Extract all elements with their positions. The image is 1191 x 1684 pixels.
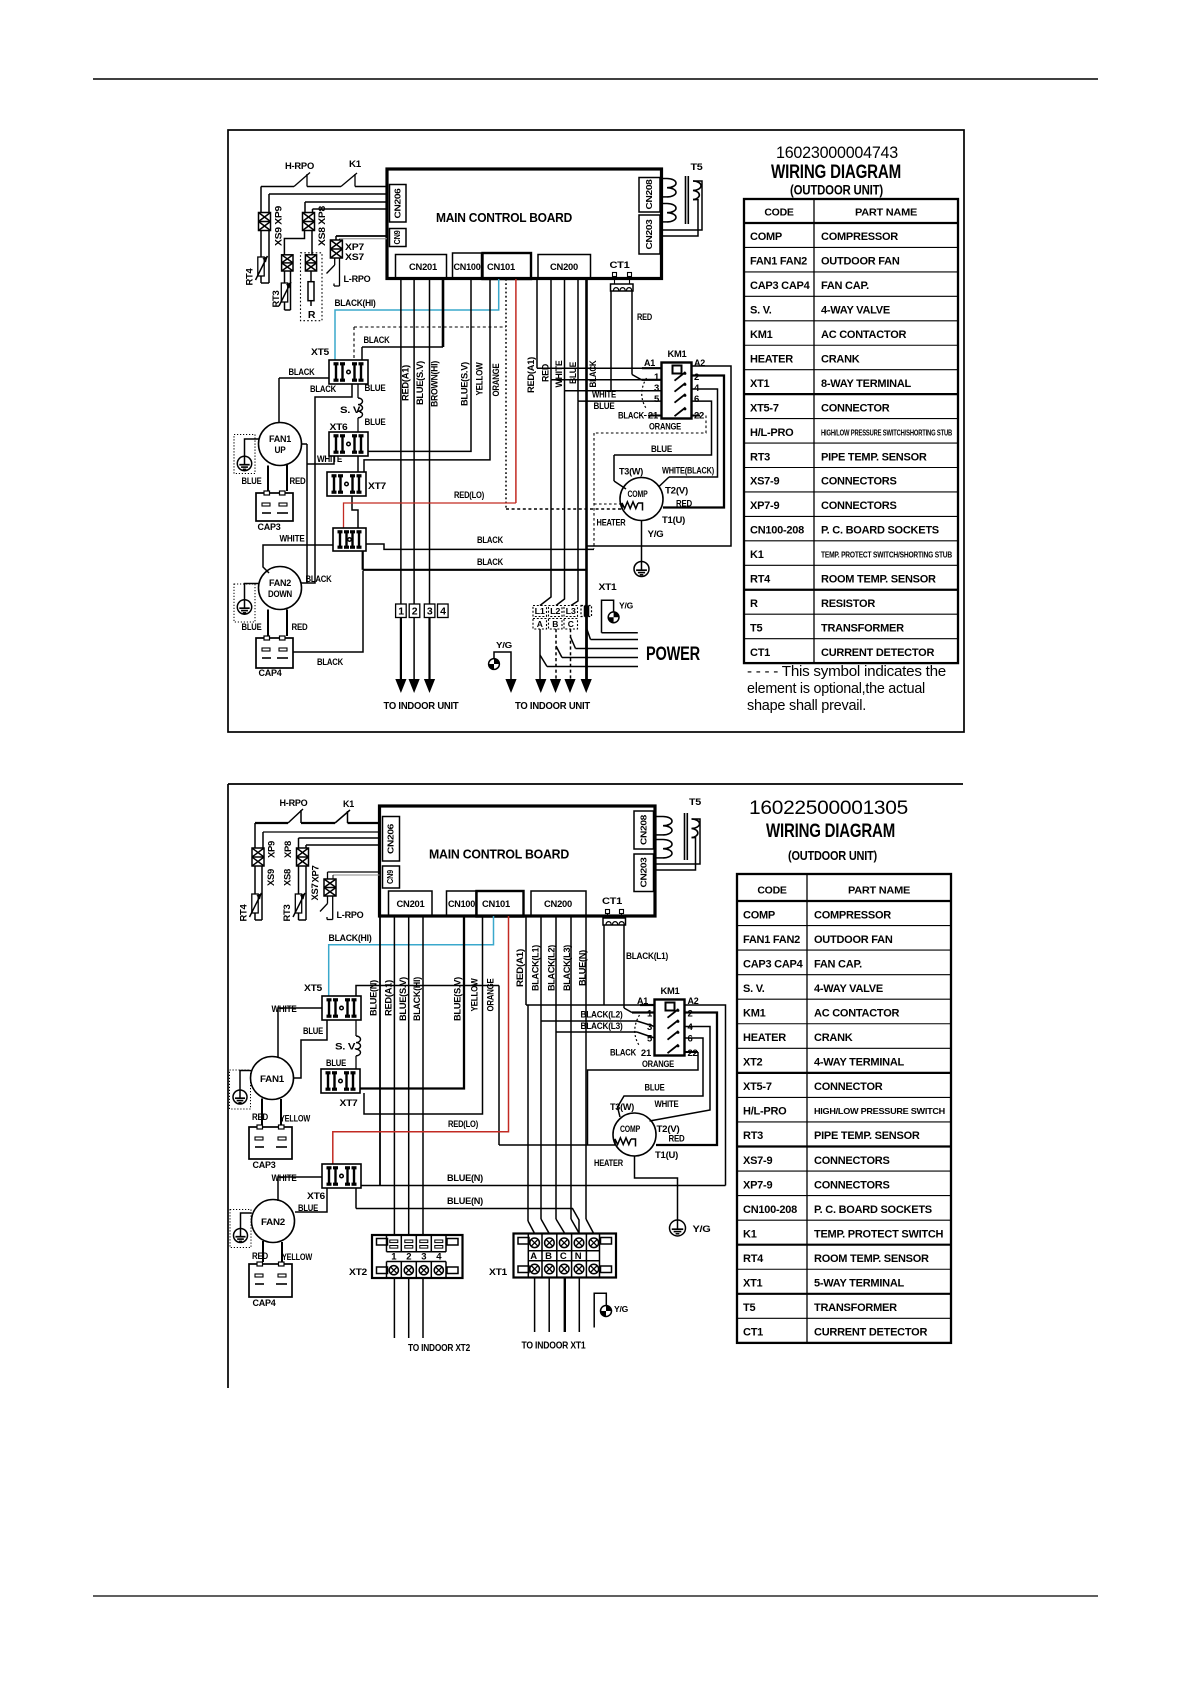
wire RED(A1) to A1 d2	[525, 916, 527, 1005]
ground symbol fan2	[234, 584, 255, 622]
wire YELLOW CN101	[364, 279, 490, 472]
wires FAN2 to CAP4 d2	[262, 1241, 264, 1262]
svg-text:CONNECTOR: CONNECTOR	[814, 1081, 883, 1093]
svg-text:K1: K1	[343, 799, 355, 810]
svg-text:MAIN CONTROL BOARD: MAIN CONTROL BOARD	[429, 847, 569, 862]
svg-text:WHITE: WHITE	[272, 1004, 297, 1015]
svg-text:CN201: CN201	[409, 262, 438, 273]
svg-text:CT1: CT1	[602, 896, 623, 907]
resistor R	[310, 271, 312, 282]
wire KM1 pin4 WHITE(BLACK)	[669, 389, 718, 477]
svg-text:XT5-7: XT5-7	[750, 402, 779, 414]
svg-text:S. V.: S. V.	[743, 983, 765, 995]
connector XP7 XS7	[330, 240, 342, 258]
wires to indoor arrows left	[400, 618, 402, 680]
svg-text:BLUE: BLUE	[645, 1083, 665, 1094]
connector XT7 d2	[321, 1069, 360, 1093]
connector XP8 XS8 d2	[297, 848, 309, 866]
svg-text:BLACK: BLACK	[610, 1048, 636, 1059]
svg-text:BLACK: BLACK	[289, 367, 315, 378]
wire RED CN101 down	[515, 279, 517, 503]
svg-text:COMPRESSOR: COMPRESSOR	[814, 909, 891, 921]
svg-text:CAP3: CAP3	[258, 522, 281, 533]
svg-text:CURRENT DETECTOR: CURRENT DETECTOR	[814, 1327, 927, 1339]
svg-text:RED(A1): RED(A1)	[526, 357, 536, 393]
svg-text:XT1: XT1	[743, 1278, 763, 1290]
socket CN100 d2	[447, 891, 477, 916]
svg-text:POWER: POWER	[646, 644, 700, 665]
main control board 2	[380, 806, 656, 916]
wire FAN1 to XT5 BLACK	[279, 377, 329, 379]
svg-text:RED: RED	[290, 476, 306, 487]
svg-text:T1(U): T1(U)	[662, 515, 685, 526]
svg-text:ORANGE: ORANGE	[649, 422, 681, 433]
svg-text:CN206: CN206	[385, 823, 395, 854]
svg-text:3: 3	[421, 1252, 426, 1263]
svg-text:CN101: CN101	[487, 262, 516, 273]
svg-text:PIPE TEMP. SENSOR: PIPE TEMP. SENSOR	[821, 451, 927, 463]
wire XT5 down to FAN2	[302, 384, 353, 583]
wire to CN206 b	[305, 201, 387, 203]
svg-text:TEMP. PROTECT SWITCH/SHORTING: TEMP. PROTECT SWITCH/SHORTING STUB	[821, 550, 952, 560]
svg-text:CAP4: CAP4	[253, 1298, 277, 1309]
svg-text:BLUE: BLUE	[365, 383, 386, 394]
svg-text:H/L-PRO: H/L-PRO	[750, 427, 794, 439]
svg-text:BLUE(N): BLUE(N)	[447, 1173, 483, 1184]
svg-text:BLACK(HI): BLACK(HI)	[329, 933, 372, 944]
svg-text:BLUE: BLUE	[242, 476, 262, 487]
svg-text:RED: RED	[540, 363, 550, 382]
svg-text:Y/G: Y/G	[648, 529, 664, 540]
svg-text:BLUE: BLUE	[242, 622, 262, 633]
connector XS9 XP9	[259, 213, 271, 231]
svg-text:BLUE: BLUE	[303, 1026, 323, 1037]
svg-text:XT1: XT1	[599, 582, 618, 593]
svg-text:RED: RED	[252, 1112, 268, 1123]
svg-text:XT7: XT7	[368, 481, 386, 492]
svg-text:FAN1: FAN1	[269, 434, 291, 444]
svg-text:XP9: XP9	[266, 841, 276, 858]
wire WHITE to KM1 pin3	[564, 279, 566, 391]
svg-text:AC CONTACTOR: AC CONTACTOR	[821, 329, 907, 341]
svg-text:CN9: CN9	[393, 230, 402, 245]
optional dashed boundary	[353, 327, 355, 360]
svg-text:(OUTDOOR UNIT): (OUTDOOR UNIT)	[788, 848, 877, 863]
svg-text:Y/G: Y/G	[619, 601, 634, 611]
socket CN201	[396, 255, 447, 279]
svg-text:BLUE: BLUE	[365, 417, 386, 428]
km1 linkage dashed arc	[642, 378, 647, 409]
svg-text:R: R	[750, 598, 758, 610]
svg-text:RED: RED	[676, 499, 692, 510]
svg-text:WHITE: WHITE	[272, 1173, 297, 1184]
svg-text:XS7: XS7	[310, 883, 320, 900]
svg-text:Y/G: Y/G	[614, 1304, 629, 1314]
svg-text:RT3: RT3	[750, 451, 770, 463]
wires FAN1 to CAP3 d2	[261, 1099, 263, 1126]
wires below XT2	[393, 1278, 395, 1338]
svg-text:CODE: CODE	[757, 885, 787, 897]
svg-text:BLACK(HI): BLACK(HI)	[412, 977, 422, 1021]
svg-text:XS8: XS8	[282, 869, 292, 886]
connector XT6 d2	[322, 1164, 361, 1188]
socket CN208 d2	[634, 811, 654, 849]
svg-text:Y/G: Y/G	[496, 640, 513, 650]
svg-text:WHITE: WHITE	[554, 360, 564, 387]
svg-text:A: A	[530, 1251, 537, 1262]
svg-text:AC CONTACTOR: AC CONTACTOR	[814, 1007, 900, 1019]
wire CN9 to XP7 gray	[340, 238, 388, 240]
svg-text:(OUTDOOR UNIT): (OUTDOOR UNIT)	[790, 183, 883, 198]
svg-text:OUTDOOR FAN: OUTDOOR FAN	[814, 934, 893, 946]
svg-text:BLUE(S.V): BLUE(S.V)	[415, 361, 425, 405]
fan capacitor CAP4 d2	[249, 1264, 292, 1297]
svg-text:XP7-9: XP7-9	[750, 500, 779, 512]
svg-text:YELLOW: YELLOW	[474, 362, 484, 396]
wire XS8 right to R	[311, 231, 313, 255]
svg-text:XT1: XT1	[489, 1267, 508, 1278]
switch L-RPO	[334, 258, 336, 265]
wire to CN206 c	[313, 208, 388, 210]
svg-text:BLACK(L1): BLACK(L1)	[530, 945, 540, 991]
svg-text:XT5: XT5	[304, 983, 323, 994]
compressor COMP	[620, 478, 663, 521]
svg-text:BROWN(HI): BROWN(HI)	[429, 361, 439, 407]
wire WHITE xt6 to FAN2	[278, 1177, 322, 1201]
svg-text:2: 2	[688, 1009, 693, 1020]
svg-text:KM1: KM1	[750, 329, 773, 341]
svg-text:XS7-9: XS7-9	[750, 476, 779, 488]
wire BLUE(SV) thick d2	[360, 916, 464, 1089]
fan motor FAN1	[259, 423, 302, 466]
svg-text:PART NAME: PART NAME	[848, 885, 910, 897]
wire COMP T1 to ground d2	[635, 1156, 678, 1220]
svg-text:CT1: CT1	[610, 260, 631, 271]
svg-text:T5: T5	[691, 162, 704, 173]
wire XS8 to RT3	[284, 231, 304, 255]
power terminals L1 L2 L3 N	[533, 606, 547, 617]
svg-text:6: 6	[694, 394, 699, 405]
svg-text:XP8: XP8	[283, 841, 293, 858]
svg-text:RED(LO): RED(LO)	[454, 490, 484, 501]
wires below XT1	[534, 1278, 536, 1333]
svg-text:4-WAY VALVE: 4-WAY VALVE	[821, 305, 890, 317]
svg-text:TO INDOOR XT2: TO INDOOR XT2	[408, 1342, 470, 1354]
svg-text:BLUE(S.V): BLUE(S.V)	[398, 977, 408, 1021]
svg-text:C: C	[560, 1251, 567, 1262]
wire RED down d2	[333, 916, 509, 1164]
svg-text:TO INDOOR XT1: TO INDOOR XT1	[522, 1340, 586, 1352]
svg-text:CN100-208: CN100-208	[750, 525, 804, 537]
crank heater	[622, 502, 638, 510]
diagram 2 frame	[228, 783, 963, 785]
svg-text:CONNECTORS: CONNECTORS	[821, 500, 897, 512]
wire BLACK N thick	[585, 279, 588, 606]
svg-text:CN100: CN100	[454, 262, 481, 273]
page bottom rule	[93, 1595, 1098, 1597]
svg-text:ORANGE: ORANGE	[491, 363, 501, 396]
svg-text:BLACK(L3): BLACK(L3)	[581, 1021, 623, 1032]
svg-text:2: 2	[412, 606, 418, 618]
svg-text:COMP: COMP	[628, 489, 649, 500]
svg-text:KM1: KM1	[661, 986, 681, 997]
ground symbol fan1	[234, 435, 255, 474]
svg-text:CN9: CN9	[386, 869, 395, 884]
svg-text:4-WAY VALVE: 4-WAY VALVE	[814, 983, 883, 995]
svg-text:RT4: RT4	[238, 904, 248, 921]
svg-text:BLUE(N): BLUE(N)	[368, 980, 378, 1016]
svg-text:4: 4	[440, 606, 446, 618]
svg-text:TRANSFORMER: TRANSFORMER	[814, 1302, 897, 1314]
svg-text:BLUE: BLUE	[594, 401, 615, 412]
connector XT7	[327, 472, 366, 496]
svg-text:ORANGE: ORANGE	[485, 978, 495, 1011]
connector XS8 XP8	[303, 213, 315, 231]
svg-text:FAN2: FAN2	[261, 1217, 285, 1228]
svg-text:CONNECTORS: CONNECTORS	[821, 476, 897, 488]
connector above R	[305, 255, 316, 271]
wire heater feed d2	[499, 1144, 615, 1146]
compressor COMP d2	[613, 1113, 656, 1156]
svg-text:XS7: XS7	[345, 252, 364, 263]
svg-text:BLACK: BLACK	[588, 360, 598, 388]
wire BLACK(L3) d2	[555, 916, 557, 1032]
wire WHITE xt5 to FAN1	[278, 1008, 322, 1058]
svg-text:K1: K1	[750, 549, 764, 561]
svg-text:YELLOW: YELLOW	[280, 1114, 310, 1125]
svg-text:XS8 XP8: XS8 XP8	[317, 206, 327, 246]
socket CN206 d2	[383, 817, 400, 862]
wire KM1 A2 loop d2	[685, 1005, 726, 1186]
svg-text:XT7: XT7	[340, 1098, 358, 1109]
power feed lines	[587, 628, 591, 640]
svg-text:A1: A1	[644, 358, 656, 369]
room temp sensor RT4 d2	[254, 866, 256, 894]
svg-text:WHITE: WHITE	[280, 534, 305, 545]
svg-text:FAN1 FAN2: FAN1 FAN2	[750, 256, 807, 268]
svg-text:TO INDOOR UNIT: TO INDOOR UNIT	[515, 700, 591, 712]
socket CN101 d2	[477, 891, 524, 917]
socket CN203	[639, 215, 660, 254]
ground Y/G xt1	[602, 600, 614, 633]
svg-text:CT1: CT1	[750, 647, 770, 659]
svg-text:XT2: XT2	[743, 1057, 763, 1069]
svg-text:BLACK(L2): BLACK(L2)	[546, 945, 556, 991]
svg-text:WHITE(BLACK): WHITE(BLACK)	[662, 466, 714, 477]
svg-text:1: 1	[398, 606, 404, 618]
socket CN200 d2	[531, 891, 586, 916]
diagram 1 frame	[228, 130, 964, 732]
svg-text:B: B	[552, 619, 558, 629]
solenoid valve S.V. d2	[355, 1021, 357, 1037]
svg-text:PIPE TEMP. SENSOR: PIPE TEMP. SENSOR	[814, 1130, 920, 1142]
wire KM1 pin2 RED thick	[663, 376, 724, 508]
svg-text:CAP3 CAP4: CAP3 CAP4	[750, 280, 811, 292]
svg-text:XT1: XT1	[750, 378, 770, 390]
svg-text:CAP4: CAP4	[259, 668, 283, 679]
svg-text:S. V.: S. V.	[335, 1042, 357, 1053]
svg-text:A2: A2	[694, 358, 705, 369]
connector XS7 XP7 d2	[324, 879, 336, 896]
svg-text:RT4: RT4	[743, 1253, 764, 1265]
current detector wires	[610, 291, 612, 391]
svg-text:CN201: CN201	[397, 899, 426, 910]
wire CN9 to XS7 d2	[328, 871, 380, 873]
svg-text:L1: L1	[535, 606, 546, 616]
wire CAP4 black right	[293, 571, 363, 652]
svg-text:- - - - This symbol indicates: - - - - This symbol indicates the	[747, 664, 946, 680]
power terminals A B C	[533, 619, 547, 630]
wires FAN2 to CAP4	[267, 610, 269, 637]
svg-text:RED(A1): RED(A1)	[400, 365, 410, 401]
svg-text:BLACK: BLACK	[317, 657, 343, 668]
wire RED(A1) to KM1 A1	[536, 279, 538, 368]
svg-text:2: 2	[406, 1252, 411, 1263]
svg-text:HEATER: HEATER	[594, 1158, 623, 1169]
svg-text:OUTDOOR FAN: OUTDOOR FAN	[821, 256, 900, 268]
svg-text:T5: T5	[750, 622, 762, 634]
svg-text:CN200: CN200	[550, 262, 578, 273]
socket CN200	[538, 255, 591, 279]
svg-text:YELLOW: YELLOW	[469, 978, 479, 1012]
svg-text:RT3: RT3	[743, 1130, 763, 1142]
svg-text:P. C. BOARD SOCKETS: P. C. BOARD SOCKETS	[821, 525, 939, 537]
svg-text:Y/G: Y/G	[693, 1224, 711, 1235]
wire KM1 A2 loop	[587, 366, 732, 546]
svg-text:HIGH/LOW PRESSURE SWITCH/SHORT: HIGH/LOW PRESSURE SWITCH/SHORTING STUB	[821, 427, 952, 437]
svg-text:COMP: COMP	[620, 1124, 641, 1135]
svg-text:S. V.: S. V.	[750, 305, 772, 317]
svg-text:TRANSFORMER: TRANSFORMER	[821, 622, 904, 634]
wires to CN206 d2	[254, 823, 256, 848]
wire KM1 pin21 dashed	[648, 415, 662, 417]
svg-text:RED: RED	[637, 312, 652, 323]
wire ORANGE d2	[356, 986, 499, 997]
svg-text:RESISTOR: RESISTOR	[821, 598, 875, 610]
wire BLUE xt6 to FAN2	[295, 1189, 327, 1213]
wire KM1 pin22 dashed orange	[692, 415, 701, 417]
wire RED to KM1 pin1	[550, 279, 552, 380]
svg-text:K1: K1	[349, 159, 362, 170]
svg-text:16023000004743: 16023000004743	[776, 144, 898, 162]
wire BLUE to KM1 pin5	[577, 279, 579, 401]
wire XT6 to XT7	[357, 456, 359, 472]
connector XT5	[329, 360, 368, 384]
contactor KM1 d2	[655, 1000, 685, 1056]
svg-text:C: C	[568, 619, 574, 629]
svg-text:CN100: CN100	[448, 899, 475, 910]
svg-text:21: 21	[641, 1048, 652, 1059]
svg-text:FAN CAP.: FAN CAP.	[821, 280, 869, 292]
pipe temp sensor RT3	[284, 271, 286, 283]
svg-text:RT3: RT3	[282, 904, 292, 921]
wire CN9 to XP7	[336, 235, 387, 237]
svg-text:FAN2: FAN2	[269, 578, 291, 588]
svg-text:PART NAME: PART NAME	[855, 207, 917, 219]
switch L-RPO d2	[327, 896, 329, 904]
svg-text:ORANGE: ORANGE	[642, 1059, 674, 1070]
wire BLACK long 2 thick	[362, 551, 364, 570]
wires FAN1 to CAP3	[267, 466, 269, 492]
socket CN9	[390, 229, 407, 247]
svg-text:CONNECTORS: CONNECTORS	[814, 1179, 890, 1191]
svg-text:XT2: XT2	[349, 1267, 367, 1278]
svg-text:8-WAY TERMINAL: 8-WAY TERMINAL	[821, 378, 912, 390]
fan motor FAN2 d2	[252, 1200, 295, 1243]
svg-text:RT3: RT3	[271, 290, 281, 307]
connector above RT3	[282, 255, 293, 271]
wires down to XT1 d2	[527, 1005, 529, 1221]
wire BLACK(L2) d2	[540, 916, 542, 1021]
svg-text:XS7-9: XS7-9	[743, 1155, 772, 1167]
svg-text:K1: K1	[743, 1228, 757, 1240]
connector below XT7	[333, 528, 366, 551]
svg-text:MAIN CONTROL BOARD: MAIN CONTROL BOARD	[436, 210, 572, 225]
wire BLACK thick CN201 to XT5	[442, 279, 445, 347]
ground Y/G xt1 d2	[594, 1293, 606, 1327]
svg-text:T5: T5	[743, 1302, 755, 1314]
svg-text:WHITE: WHITE	[317, 454, 342, 465]
socket CN101	[483, 253, 532, 279]
svg-text:RT4: RT4	[244, 268, 254, 285]
svg-text:HEATER: HEATER	[743, 1032, 786, 1044]
svg-text:BLACK: BLACK	[477, 557, 503, 568]
wire KM1 pin4 WHITE d2	[650, 1027, 711, 1122]
svg-text:CN208: CN208	[644, 179, 654, 210]
svg-text:XT6: XT6	[330, 422, 348, 433]
svg-text:CODE: CODE	[764, 207, 794, 219]
svg-text:XT5: XT5	[311, 347, 330, 358]
svg-text:HEATER: HEATER	[750, 353, 793, 365]
socket CN208	[639, 178, 660, 213]
wire KM1 pin6 BLUE d2	[618, 1038, 704, 1117]
parts table 1	[744, 199, 958, 663]
fan capacitor CAP3	[256, 493, 293, 521]
parts table 2	[737, 874, 951, 1343]
svg-text:CT1: CT1	[743, 1327, 763, 1339]
svg-text:CN203: CN203	[644, 219, 654, 250]
svg-text:CN100-208: CN100-208	[743, 1204, 797, 1216]
page top rule	[93, 78, 1098, 80]
svg-text:T2(V): T2(V)	[657, 1124, 680, 1135]
svg-text:HIGH/LOW PRESSURE SWITCH: HIGH/LOW PRESSURE SWITCH	[814, 1106, 945, 1116]
terminal boxes 1 2 3 4	[396, 604, 407, 618]
svg-text:RED: RED	[669, 1134, 685, 1145]
svg-text:BLACK: BLACK	[364, 335, 390, 346]
svg-text:RT4: RT4	[750, 574, 771, 586]
svg-text:FAN1: FAN1	[260, 1074, 285, 1085]
svg-text:TO INDOOR UNIT: TO INDOOR UNIT	[384, 700, 460, 712]
svg-text:ROOM TEMP. SENSOR: ROOM TEMP. SENSOR	[814, 1253, 929, 1265]
svg-text:A1: A1	[637, 996, 649, 1007]
svg-text:FAN CAP.: FAN CAP.	[814, 958, 862, 970]
svg-text:WHITE: WHITE	[655, 1099, 679, 1110]
svg-text:H-RPO: H-RPO	[285, 161, 314, 172]
svg-text:3: 3	[647, 1022, 652, 1033]
svg-text:CN206: CN206	[392, 188, 402, 219]
wire WHITE lower conn to FAN2	[263, 545, 333, 573]
socket CN203 d2	[634, 854, 654, 892]
svg-text:XT6: XT6	[307, 1191, 325, 1202]
wires CN201 down d2	[393, 916, 395, 1235]
wire XT6 white down	[307, 456, 334, 464]
socket CN206	[390, 185, 407, 223]
svg-text:BLUE(S.V): BLUE(S.V)	[452, 977, 462, 1021]
ground symbol fan2 d2	[230, 1210, 251, 1248]
svg-text:BLACK(HI): BLACK(HI)	[335, 298, 376, 309]
svg-text:BLUE(N): BLUE(N)	[447, 1196, 483, 1207]
socket CN100	[453, 253, 482, 279]
